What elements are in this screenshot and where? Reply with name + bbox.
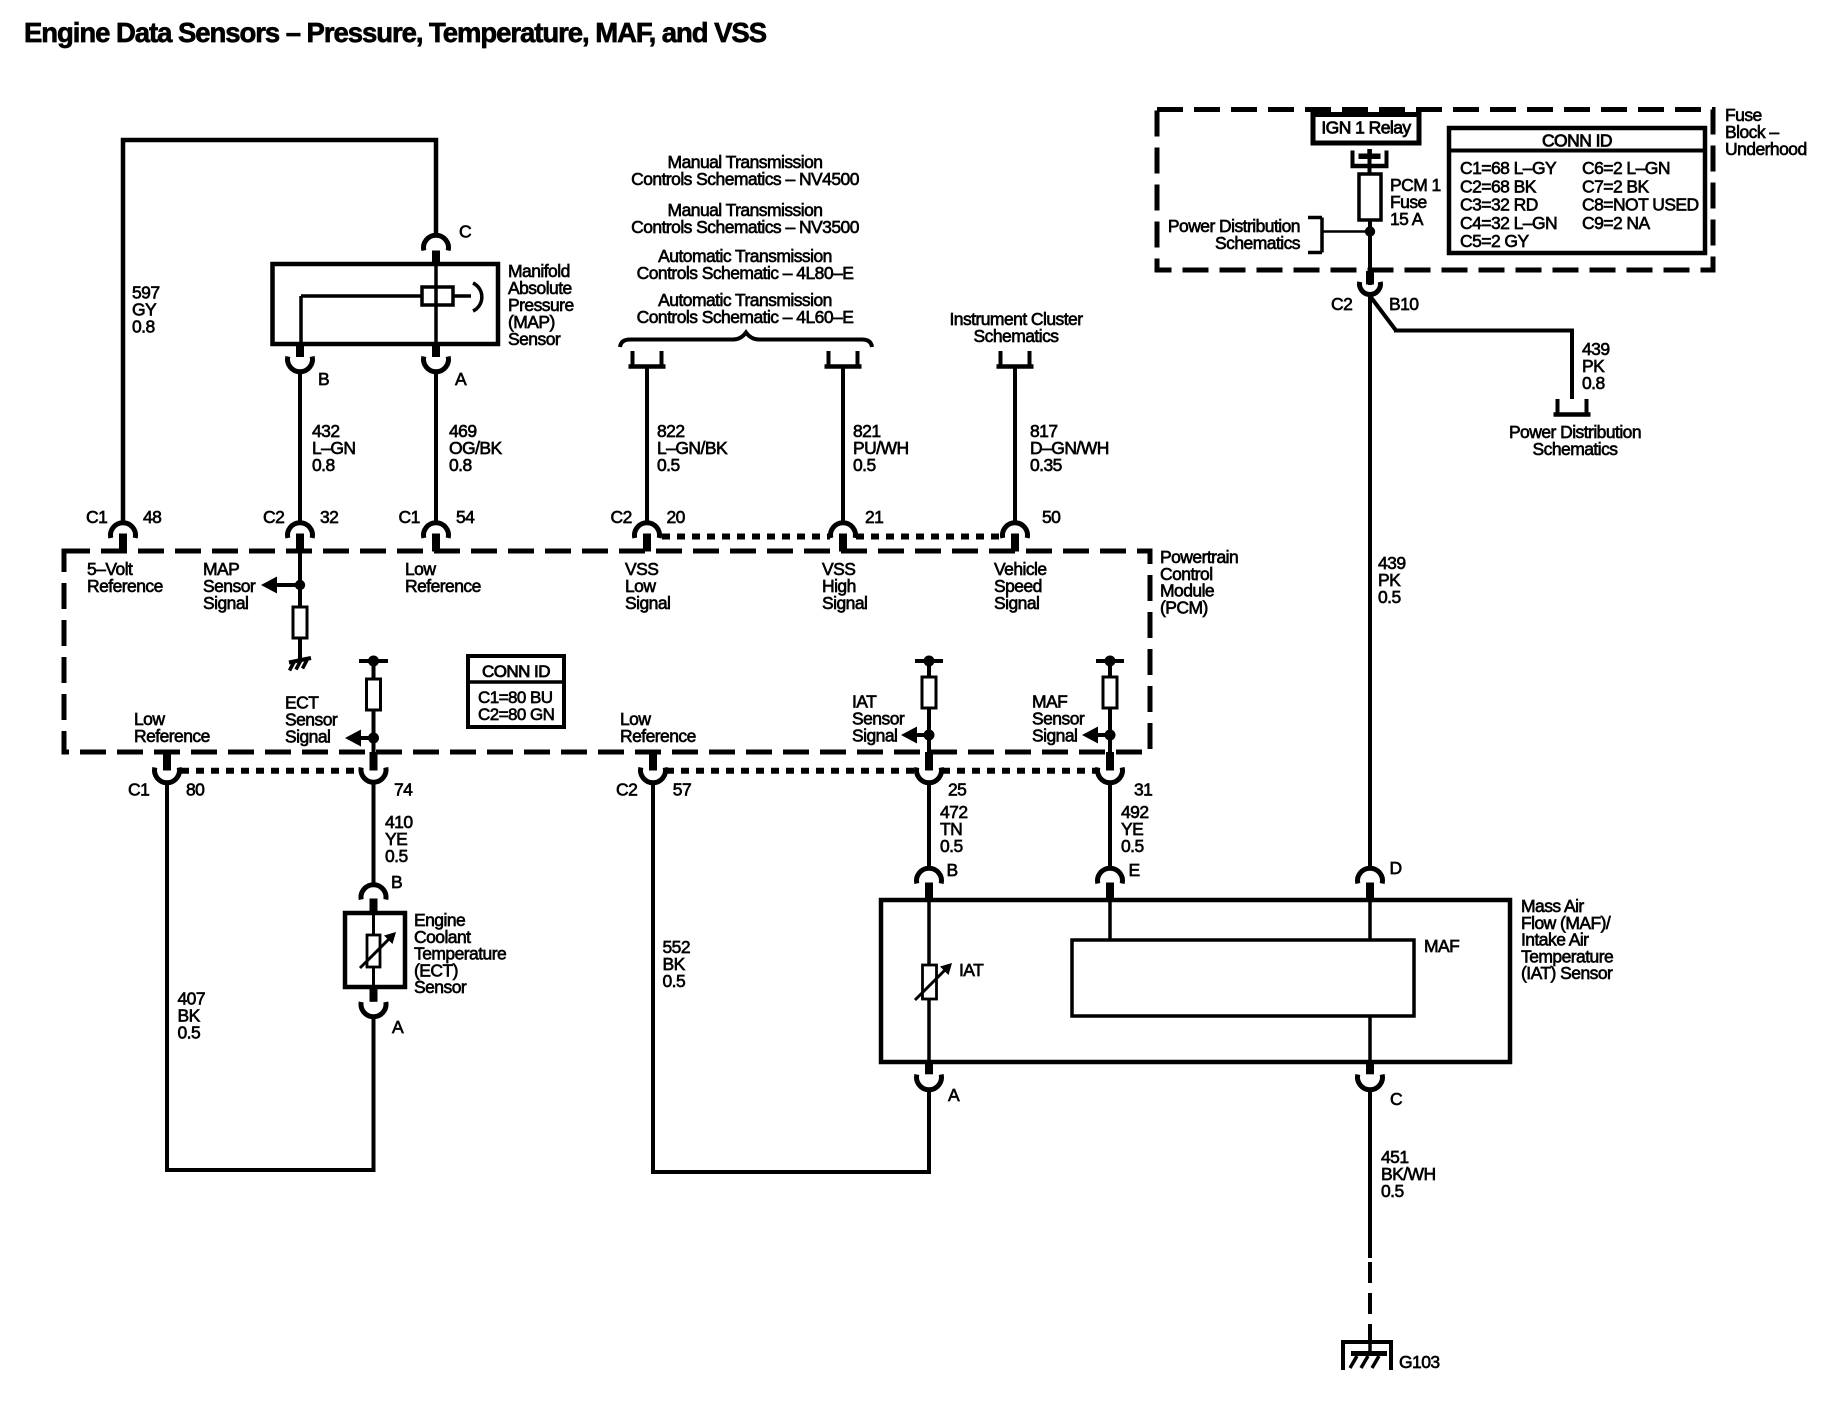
svg-text:A: A <box>392 1017 404 1037</box>
wire 492 YE <box>1108 783 1112 869</box>
bracket to power distribution schematics <box>1320 218 1324 253</box>
wire resistor to ground <box>298 637 302 659</box>
horizontal brace over transmission references <box>620 333 872 348</box>
svg-text:0.5: 0.5 <box>940 836 963 856</box>
wire 597 GY (5-volt reference feed) <box>123 140 436 524</box>
connector C1 dotted body line (bottom left) <box>181 768 360 774</box>
PCM box (dashed) <box>64 551 1150 752</box>
pin A connector (MAF/IAT sensor) <box>925 1062 933 1074</box>
svg-text:C2=68 BK: C2=68 BK <box>1460 176 1537 196</box>
relay contact symbol K1 <box>1351 151 1355 165</box>
wire ECT resistor to pin 74 <box>372 710 376 752</box>
wire IAT element return <box>927 999 931 1062</box>
svg-text:E: E <box>1129 860 1140 880</box>
svg-text:B: B <box>947 860 958 880</box>
wire 439 PK splice diagonal <box>1370 296 1396 331</box>
connector C2 dotted body line (bottom right) <box>666 768 916 774</box>
svg-text:D: D <box>1390 858 1402 878</box>
svg-text:48: 48 <box>143 507 161 527</box>
svg-text:(IAT) Sensor: (IAT) Sensor <box>1521 963 1613 983</box>
CONN ID table (fuse block) <box>1449 128 1705 253</box>
wire 821 PU/WH <box>841 368 845 524</box>
svg-text:Signal: Signal <box>852 726 897 746</box>
svg-text:Schematics: Schematics <box>1533 439 1619 459</box>
svg-text:Reference: Reference <box>134 726 210 746</box>
internal rail bar (MAF pull-up) <box>1096 659 1124 663</box>
svg-text:Engine Data Sensors – Pressure: Engine Data Sensors – Pressure, Temperat… <box>24 17 767 48</box>
svg-text:54: 54 <box>456 507 475 527</box>
wire branch to power distribution bracket <box>1322 230 1370 233</box>
resistor PCM IAT pull-up (internal) <box>922 677 936 708</box>
resistor PCM MAP pull (internal) <box>293 607 307 638</box>
pin C2-20 (PCM VSS low) <box>635 523 660 538</box>
svg-text:B: B <box>318 369 329 389</box>
MAP sensor box <box>273 264 499 344</box>
svg-text:Signal: Signal <box>203 593 248 613</box>
svg-text:50: 50 <box>1042 507 1061 527</box>
svg-text:C3=32 RD: C3=32 RD <box>1460 195 1538 215</box>
junction dot IAT signal <box>924 730 935 741</box>
svg-text:C1: C1 <box>86 507 107 527</box>
svg-text:Signal: Signal <box>994 593 1039 613</box>
svg-text:Sensor: Sensor <box>508 329 561 349</box>
wire PCM MAP signal internal <box>298 551 302 607</box>
junction dot at power distribution tap <box>1365 226 1375 236</box>
svg-text:C7=2 BK: C7=2 BK <box>1582 176 1650 196</box>
wire 552 BK (low reference return) <box>653 783 929 1173</box>
svg-text:Schematics: Schematics <box>974 326 1060 346</box>
wire 822 L-GN/BK <box>645 368 649 524</box>
pin C1-54 (PCM low reference) <box>424 523 449 538</box>
svg-text:C: C <box>459 222 471 242</box>
svg-text:Signal: Signal <box>822 593 867 613</box>
wire 439 PK 0.5 (main run to MAF) <box>1368 294 1372 870</box>
pin D connector (MAF/IAT sensor) <box>1358 868 1383 883</box>
pin 21 (PCM VSS high) <box>831 523 856 538</box>
svg-text:C5=2 GY: C5=2 GY <box>1460 231 1529 251</box>
svg-text:MAF: MAF <box>1424 936 1459 956</box>
svg-text:CONN ID: CONN ID <box>482 662 550 681</box>
svg-text:C1: C1 <box>399 507 420 527</box>
svg-text:C1: C1 <box>128 780 149 800</box>
connector C2 dotted body line (top) <box>662 534 830 540</box>
pin C1-80 (PCM low reference) <box>163 752 171 771</box>
wire 469 OG/BK <box>434 371 438 524</box>
junction dot MAF rail <box>1105 656 1116 667</box>
wire IAT element feed <box>927 900 931 965</box>
resistor PCM MAF pull (internal) <box>1103 677 1117 708</box>
svg-text:IAT: IAT <box>959 960 984 980</box>
svg-text:21: 21 <box>865 507 883 527</box>
svg-text:0.8: 0.8 <box>132 317 155 337</box>
junction dot MAP signal <box>295 580 305 590</box>
wire 472 TN <box>927 783 931 869</box>
svg-text:C8=NOT USED: C8=NOT USED <box>1582 195 1699 215</box>
MAF/IAT sensor box <box>881 900 1510 1062</box>
svg-text:A: A <box>455 369 467 389</box>
svg-text:0.5: 0.5 <box>1378 587 1401 607</box>
svg-text:Controls Schematics – NV3500: Controls Schematics – NV3500 <box>631 217 860 237</box>
pin E connector (MAF/IAT sensor) <box>1098 868 1123 883</box>
IGN 1 relay box <box>1313 115 1419 144</box>
wire 439 PK 0.8 branch <box>1394 331 1572 400</box>
pin B connector (MAP sensor) <box>296 344 304 357</box>
svg-text:0.35: 0.35 <box>1030 455 1062 475</box>
svg-text:G103: G103 <box>1399 1352 1440 1372</box>
svg-text:C9=2 NA: C9=2 NA <box>1582 213 1651 233</box>
svg-text:C2: C2 <box>611 507 632 527</box>
fuse PCM 1 15A <box>1359 174 1381 220</box>
wire rail to ECT resistor <box>372 661 376 679</box>
wire rail to IAT resistor <box>927 661 931 677</box>
wire IAT resistor to pin 25 <box>927 709 931 752</box>
svg-text:C4=32 L–GN: C4=32 L–GN <box>1460 213 1557 233</box>
svg-text:25: 25 <box>948 780 966 800</box>
svg-text:0.5: 0.5 <box>1121 836 1144 856</box>
pin C2-32 (PCM MAP signal) <box>288 523 313 538</box>
svg-text:0.8: 0.8 <box>1582 373 1605 393</box>
wire D to MAF module <box>1368 900 1372 940</box>
pin C connector (MAP sensor) <box>424 235 449 250</box>
svg-text:74: 74 <box>394 780 413 800</box>
svg-text:0.5: 0.5 <box>1381 1181 1404 1201</box>
svg-text:C1=68 L–GY: C1=68 L–GY <box>1460 158 1557 178</box>
svg-text:Signal: Signal <box>285 727 330 747</box>
arrow MAP sensor signal <box>277 583 300 587</box>
svg-text:IGN 1 Relay: IGN 1 Relay <box>1321 118 1411 138</box>
pin C2-57 (PCM low reference) <box>649 752 657 771</box>
svg-text:0.5: 0.5 <box>663 971 686 991</box>
svg-text:A: A <box>948 1085 960 1105</box>
svg-text:57: 57 <box>673 780 691 800</box>
MAF module inner box <box>1072 940 1414 1016</box>
svg-text:Signal: Signal <box>1032 726 1077 746</box>
svg-text:C2=80 GN: C2=80 GN <box>478 705 554 724</box>
wire 451 BK/WH <box>1368 1090 1372 1259</box>
svg-text:Underhood: Underhood <box>1725 139 1807 159</box>
svg-text:80: 80 <box>186 780 205 800</box>
svg-text:20: 20 <box>667 507 686 527</box>
arrow ECT sensor signal <box>361 736 374 740</box>
svg-text:32: 32 <box>320 507 338 527</box>
pin 50 (PCM vehicle speed) <box>1002 523 1027 538</box>
pressure transducer symbol U1 (MAP element) <box>434 264 438 344</box>
pin 74 (PCM ECT signal) <box>370 752 378 771</box>
svg-text:B: B <box>391 872 402 892</box>
svg-text:C2: C2 <box>263 507 284 527</box>
wire MAF module to pin C <box>1368 1016 1372 1062</box>
wire MAF resistor to pin 31 <box>1108 709 1112 752</box>
ECT sensor box <box>345 913 405 987</box>
svg-text:C2: C2 <box>1331 294 1352 314</box>
internal rail bar (IAT pull-up) <box>915 659 943 663</box>
thermistor RT1 (ECT element) <box>372 913 375 935</box>
pin B connector (MAF/IAT sensor) <box>916 868 941 883</box>
off-page connector (instrument cluster) <box>999 351 1003 366</box>
wire E to MAF module <box>1108 900 1112 940</box>
svg-text:Schematics: Schematics <box>1215 233 1301 253</box>
junction dot ECT signal <box>368 733 379 744</box>
svg-text:0.8: 0.8 <box>449 455 472 475</box>
svg-text:Reference: Reference <box>87 576 163 596</box>
ground G103 <box>1341 1340 1393 1344</box>
svg-text:0.8: 0.8 <box>312 455 335 475</box>
wire 432 L-GN <box>298 371 302 524</box>
svg-text:31: 31 <box>1134 780 1152 800</box>
pin B connector (ECT sensor) <box>361 885 386 900</box>
svg-text:15 A: 15 A <box>1390 209 1424 229</box>
svg-text:Controls Schematic – 4L60–E: Controls Schematic – 4L60–E <box>637 307 854 327</box>
junction dot ECT rail <box>368 656 379 667</box>
svg-text:0.5: 0.5 <box>385 846 408 866</box>
svg-text:Controls Schematic – 4L80–E: Controls Schematic – 4L80–E <box>637 263 854 283</box>
pin C connector (MAF/IAT sensor) <box>1366 1062 1374 1074</box>
off-page connector (power distribution) <box>1556 399 1560 414</box>
off-page connector (transmission schematics right) <box>827 351 831 366</box>
arrow IAT sensor signal <box>917 733 929 737</box>
pin 31 (PCM MAF signal) <box>1106 752 1114 771</box>
pin C1-48 (PCM 5-volt reference) <box>111 523 136 538</box>
pin 25 (PCM IAT signal) <box>925 752 933 771</box>
off-page connector (transmission schematics left) <box>631 351 635 366</box>
svg-text:C2: C2 <box>616 780 637 800</box>
svg-text:Controls Schematics – NV4500: Controls Schematics – NV4500 <box>631 169 860 189</box>
svg-text:B10: B10 <box>1389 294 1419 314</box>
in-line connector C2 pin B10 <box>1366 271 1374 285</box>
resistor PCM ECT pull-up (internal) <box>367 679 381 710</box>
wire fuse to connector C2-B10 <box>1368 220 1372 285</box>
svg-text:0.5: 0.5 <box>178 1023 201 1043</box>
junction dot MAF signal <box>1105 730 1116 741</box>
pin A connector (ECT sensor) <box>370 987 378 1002</box>
svg-text:Reference: Reference <box>405 576 481 596</box>
svg-text:0.5: 0.5 <box>853 455 876 475</box>
fuse block underhood dashed box <box>1157 110 1713 271</box>
svg-text:0.5: 0.5 <box>657 455 680 475</box>
internal rail bar (ECT pull-up) <box>359 659 388 663</box>
svg-text:C6=2 L–GN: C6=2 L–GN <box>1582 158 1670 178</box>
svg-text:(PCM): (PCM) <box>1160 597 1208 617</box>
wire 410 YE <box>372 783 376 885</box>
PCM internal ground (MAP network) <box>289 658 311 663</box>
wire 407 BK (low reference return) <box>167 783 374 1171</box>
svg-text:C: C <box>1390 1089 1402 1109</box>
pin A connector (MAP sensor) <box>432 344 440 357</box>
junction dot IAT rail <box>924 656 935 667</box>
svg-text:CONN ID: CONN ID <box>1542 131 1612 151</box>
CONN ID table (PCM) <box>468 656 564 727</box>
wire rail to MAF resistor <box>1108 661 1112 677</box>
wire 817 D-GN/WH <box>1013 368 1017 524</box>
svg-text:Signal: Signal <box>625 593 670 613</box>
arrow MAF sensor signal <box>1098 733 1110 737</box>
svg-text:Sensor: Sensor <box>414 977 467 997</box>
wire 451 dashed continuation <box>1368 1262 1372 1340</box>
svg-text:Reference: Reference <box>620 726 696 746</box>
thermistor RT2 (IAT element) <box>923 965 937 999</box>
